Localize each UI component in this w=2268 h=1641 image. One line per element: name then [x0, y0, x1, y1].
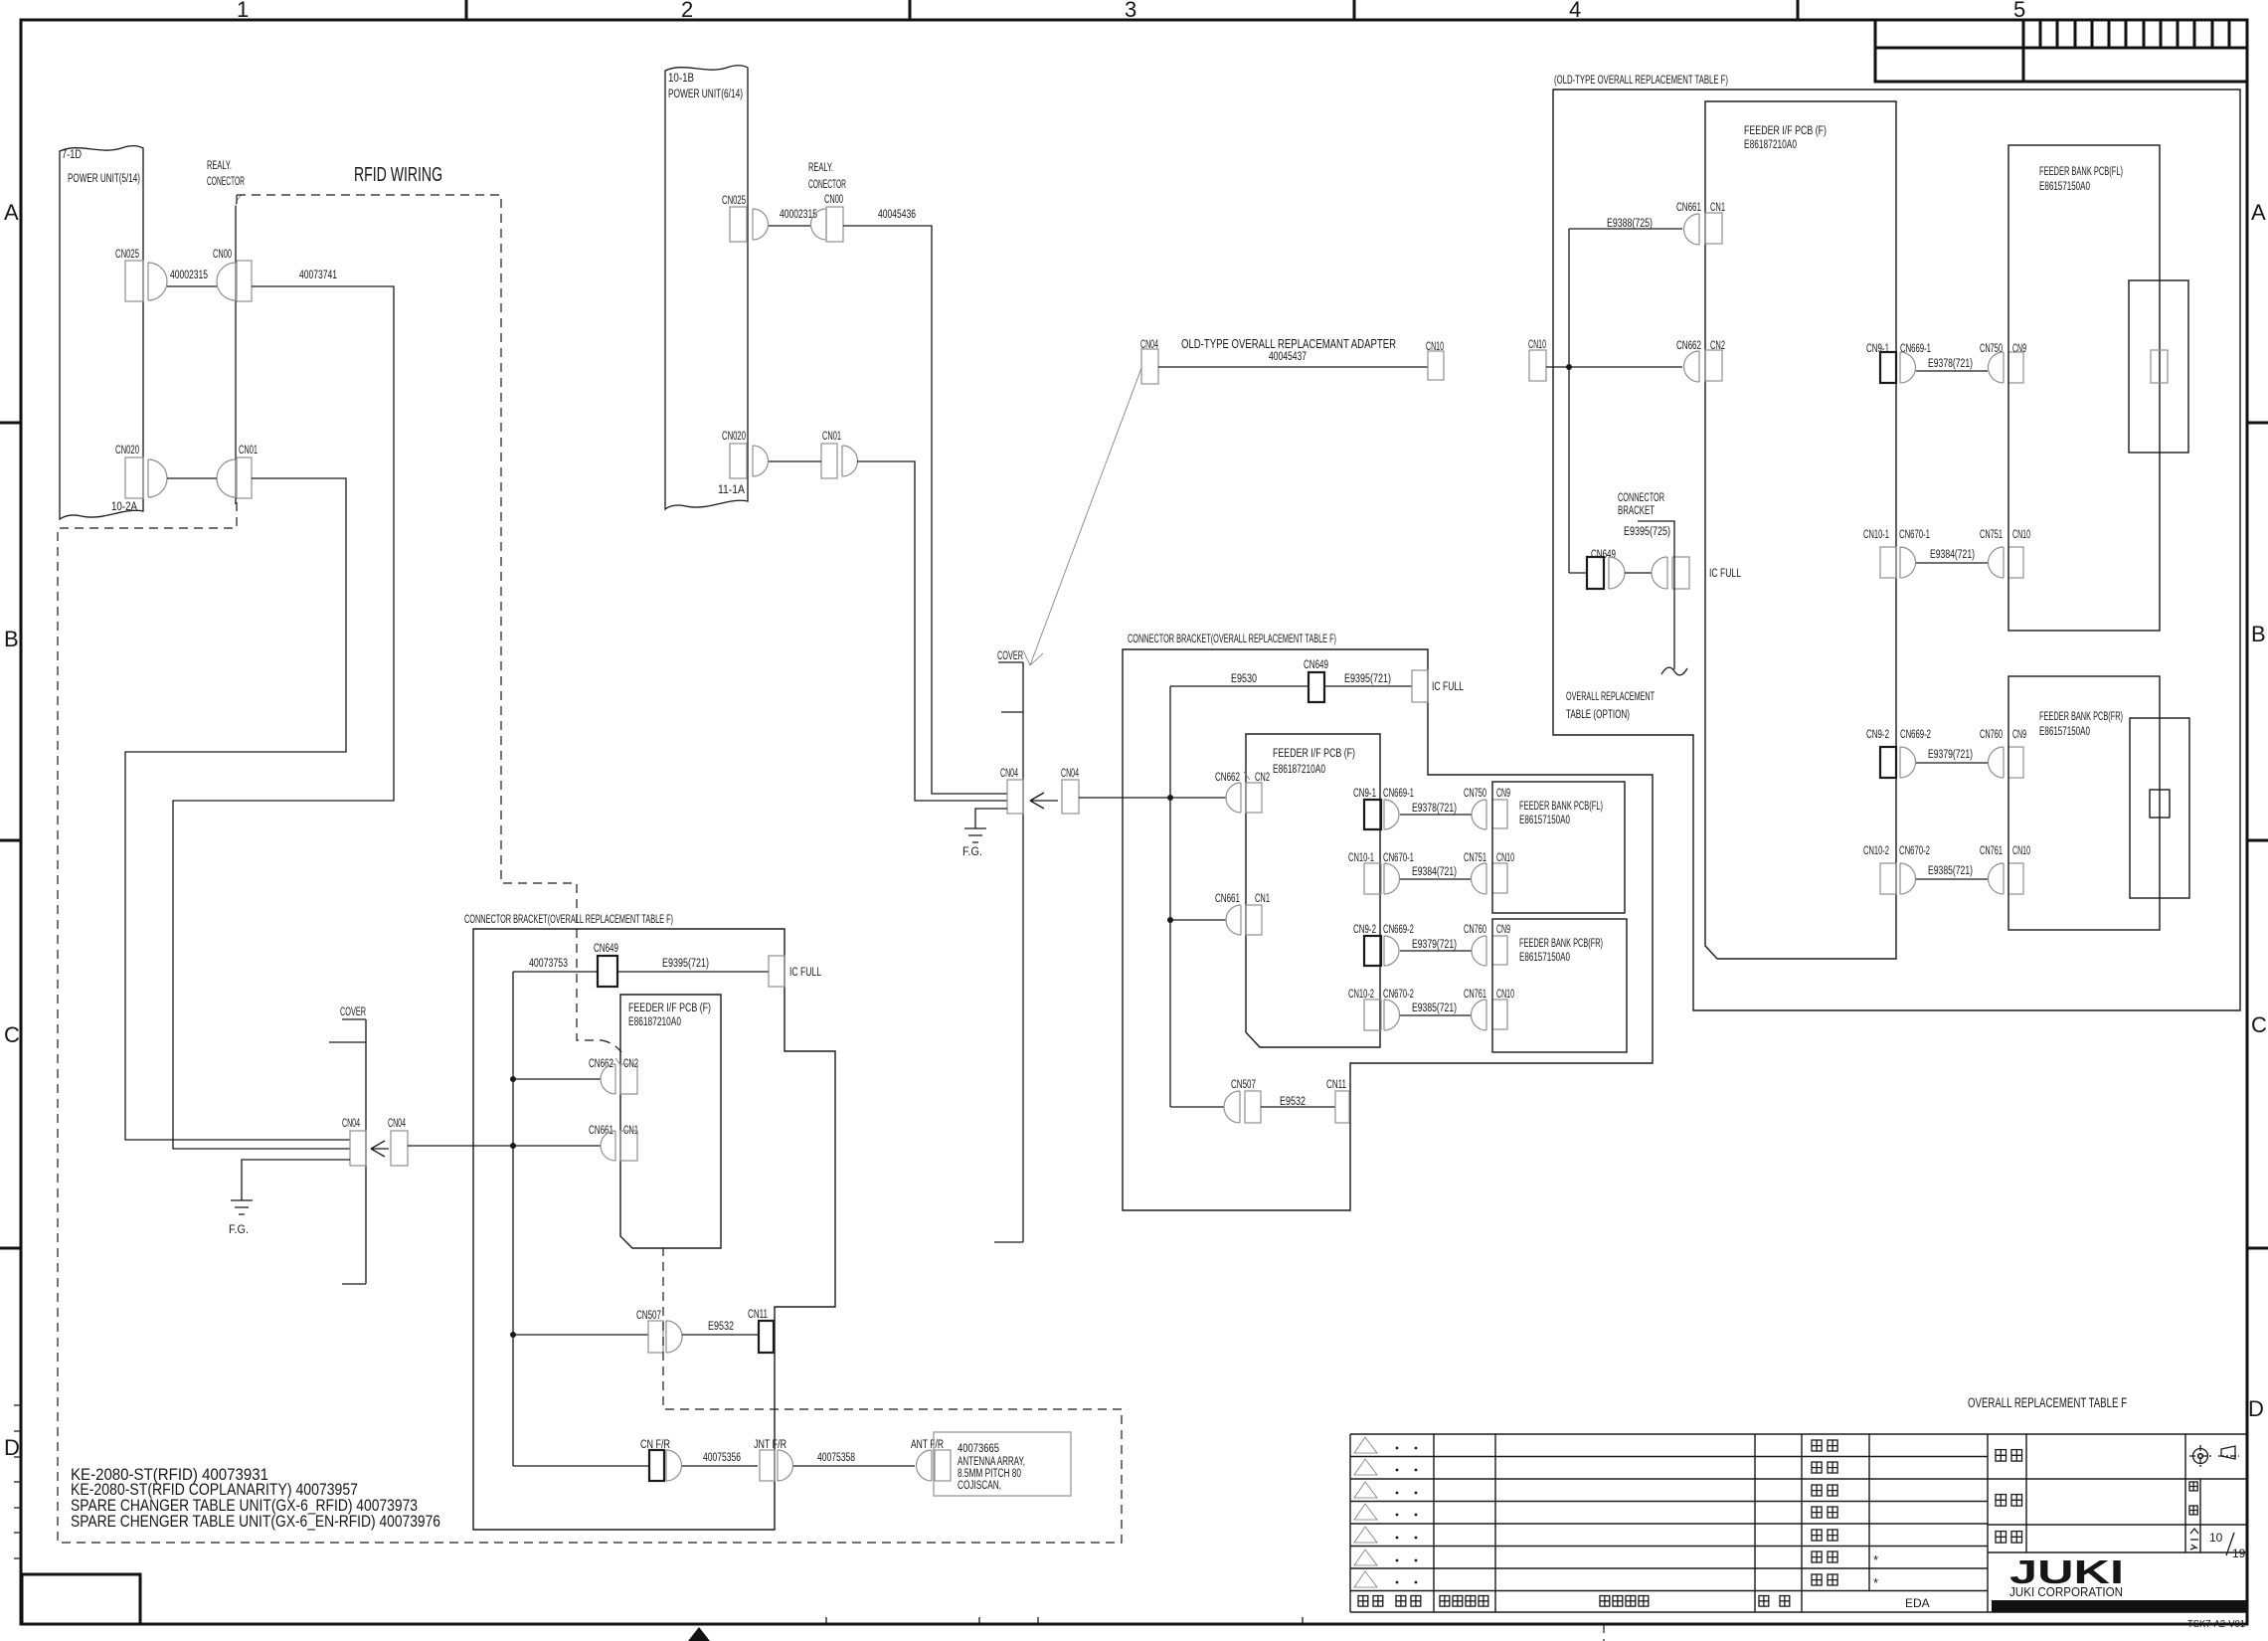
svg-text:CN669-2: CN669-2	[1900, 729, 1931, 741]
svg-text:CN04: CN04	[1061, 768, 1079, 780]
wire adapter 40045437	[1158, 366, 1428, 368]
svg-text:4: 4	[1569, 0, 1581, 22]
svg-text:CN9-1: CN9-1	[1866, 343, 1889, 355]
svg-text:CN10-2: CN10-2	[1863, 845, 1889, 857]
svg-text:CN04: CN04	[342, 1118, 360, 1130]
ground F.G. (left)	[231, 1200, 253, 1214]
left connector bracket outline	[473, 929, 835, 1530]
dashed RFID wiring boundary	[237, 195, 602, 1040]
wire bus to CN661	[513, 1145, 601, 1147]
svg-text:*: *	[1873, 1575, 1878, 1590]
svg-text:JNT F/R: JNT F/R	[754, 1439, 786, 1451]
svg-text:CN10-1: CN10-1	[1348, 852, 1374, 864]
wire middle CN04 to bracket bus	[1079, 797, 1170, 799]
junction dot CN661 branch	[510, 1143, 516, 1149]
svg-text:OVERALL REPLACEMENT: OVERALL REPLACEMENT	[1566, 691, 1655, 703]
right part lines	[1988, 1434, 2247, 1552]
wire CN020-CN01	[167, 477, 217, 479]
feeder I/F PCB box (middle)	[1246, 734, 1380, 1047]
IC FULL connector (left bracket)	[769, 956, 785, 987]
svg-text:CN649: CN649	[1304, 659, 1328, 671]
svg-text:E9395(721): E9395(721)	[662, 958, 709, 970]
wire bus to middle CN662	[1170, 797, 1226, 799]
junction dot CN507 branch	[510, 1332, 516, 1338]
svg-text:CN661: CN661	[1215, 893, 1240, 905]
svg-text:CN669-2: CN669-2	[1383, 924, 1414, 936]
svg-text:10: 10	[2209, 1531, 2223, 1545]
svg-text:40073665: 40073665	[958, 1443, 999, 1455]
wire left CN04 to bracket bus	[408, 1145, 513, 1147]
relay connector leader	[236, 195, 242, 209]
svg-text:CN04: CN04	[388, 1118, 406, 1130]
svg-text:CN662: CN662	[589, 1058, 613, 1070]
svg-text:EDA: EDA	[1905, 1596, 1930, 1610]
svg-text:CN751: CN751	[1980, 529, 2003, 541]
revision header labels	[1358, 1596, 1368, 1607]
svg-text:A: A	[2251, 200, 2266, 225]
svg-text:E9384(721): E9384(721)	[1412, 866, 1457, 878]
svg-text:POWER UNIT(6/14): POWER UNIT(6/14)	[668, 89, 743, 100]
svg-text:RFID WIRING: RFID WIRING	[354, 164, 442, 186]
svg-text:TSK7-A2-V01: TSK7-A2-V01	[2187, 1619, 2245, 1630]
feeder bank PCB FL box (right)	[2008, 145, 2160, 631]
svg-text:CN2: CN2	[1255, 772, 1270, 784]
svg-text:CONNECTOR: CONNECTOR	[1618, 492, 1664, 504]
junction dot middle CN662	[1167, 795, 1173, 801]
svg-text:CN04: CN04	[1000, 768, 1018, 780]
svg-text:CN507: CN507	[636, 1310, 661, 1322]
svg-text:CONNECTOR BRACKET(OVERALL REPL: CONNECTOR BRACKET(OVERALL REPLACEMENT TA…	[1128, 632, 1336, 645]
svg-text:E86157150A0: E86157150A0	[2039, 181, 2090, 193]
left border row ticks	[0, 423, 21, 1248]
svg-text:E9388(725): E9388(725)	[1607, 218, 1653, 230]
svg-text:40073741: 40073741	[299, 270, 337, 281]
FL edge connector rect	[2129, 280, 2188, 453]
feeder I/F PCB box (right)	[1705, 101, 1896, 959]
svg-text:FEEDER I/F PCB (F): FEEDER I/F PCB (F)	[1744, 125, 1827, 137]
wire bus to CN F/R	[513, 1465, 649, 1467]
power unit 10-1B box	[665, 66, 748, 509]
svg-text:C: C	[2251, 1012, 2267, 1037]
svg-text:IC FULL: IC FULL	[1432, 681, 1464, 693]
svg-text:E9385(721): E9385(721)	[1412, 1003, 1457, 1014]
svg-text:CN11: CN11	[748, 1309, 768, 1321]
svg-text:CN750: CN750	[1464, 788, 1486, 800]
svg-text:CONECTOR: CONECTOR	[808, 179, 846, 191]
arrow into middle CN04	[1030, 793, 1058, 809]
svg-text:E9530: E9530	[1231, 673, 1257, 685]
antenna array label box	[934, 1432, 1071, 1496]
svg-text:D: D	[4, 1435, 20, 1460]
svg-text:10-1B: 10-1B	[668, 73, 694, 85]
svg-text:CN760: CN760	[1980, 729, 2003, 741]
svg-text:CN020: CN020	[115, 445, 139, 456]
svg-text:CN11: CN11	[1326, 1079, 1346, 1091]
svg-text:E9532: E9532	[708, 1321, 734, 1333]
svg-text:E9379(721): E9379(721)	[1928, 749, 1973, 761]
svg-text:B: B	[2251, 622, 2266, 646]
feeder bank PCB FR box (middle)	[1492, 919, 1627, 1052]
svg-text:F.G.: F.G.	[229, 1224, 249, 1236]
svg-text:CN020: CN020	[722, 431, 746, 443]
svg-text:19: 19	[2232, 1547, 2246, 1560]
svg-text:8.5MM PITCH 80: 8.5MM PITCH 80	[958, 1468, 1021, 1480]
svg-text:CN507: CN507	[1231, 1079, 1256, 1091]
ground F.G. (middle)	[964, 828, 986, 842]
svg-text:E9395(725): E9395(725)	[1624, 526, 1670, 538]
svg-text:E9378(721): E9378(721)	[1928, 358, 1973, 370]
title block outer	[1350, 1434, 2247, 1612]
wire CN01 to middle cover CN04	[857, 461, 1007, 801]
wire F.G. (left)	[242, 1160, 350, 1200]
svg-text:CN751: CN751	[1464, 852, 1486, 864]
svg-text:ANTENNA ARRAY,: ANTENNA ARRAY,	[958, 1456, 1025, 1468]
feeder bank PCB FL box (middle)	[1492, 782, 1625, 913]
svg-text:CN9-2: CN9-2	[1353, 924, 1376, 936]
svg-text:CN9: CN9	[2012, 729, 2026, 741]
svg-text:B: B	[4, 627, 19, 651]
svg-text:CN1: CN1	[1710, 202, 1725, 214]
svg-text:40075356: 40075356	[703, 1452, 741, 1464]
svg-text:CN025: CN025	[115, 249, 139, 261]
bottom border ticks	[826, 1617, 1303, 1624]
svg-text:OVERALL REPLACEMENT TABLE F: OVERALL REPLACEMENT TABLE F	[1968, 1395, 2127, 1410]
wire CN020-CN01 (10-1B)	[769, 460, 821, 462]
svg-text:POWER UNIT(5/14): POWER UNIT(5/14)	[68, 173, 140, 185]
svg-text:FEEDER BANK PCB(FL): FEEDER BANK PCB(FL)	[2039, 166, 2123, 178]
svg-text:CN9: CN9	[1496, 788, 1510, 800]
svg-text:OLD-TYPE OVERALL REPLACEMANT A: OLD-TYPE OVERALL REPLACEMANT ADAPTER	[1181, 337, 1396, 351]
svg-text:3: 3	[1125, 0, 1136, 22]
svg-text:E9378(721): E9378(721)	[1412, 803, 1457, 815]
bottom center mark triangle	[688, 1627, 710, 1641]
svg-text:CN670-1: CN670-1	[1383, 852, 1414, 864]
svg-text:10-2A: 10-2A	[111, 501, 137, 513]
svg-text:COVER: COVER	[340, 1006, 366, 1018]
junction dot right CN662	[1566, 364, 1572, 370]
svg-text:CN9: CN9	[2012, 343, 2026, 355]
svg-text:COVER: COVER	[997, 650, 1023, 662]
junction dot middle CN661	[1167, 917, 1173, 923]
svg-text:FEEDER I/F PCB (F): FEEDER I/F PCB (F)	[1273, 748, 1355, 760]
svg-text:*: *	[1873, 1552, 1878, 1567]
svg-text:CN1: CN1	[1255, 893, 1270, 905]
svg-text:E9532: E9532	[1280, 1096, 1306, 1108]
svg-text:CN10-2: CN10-2	[1348, 989, 1374, 1001]
svg-text:E9379(721): E9379(721)	[1412, 939, 1457, 951]
svg-text:CONECTOR: CONECTOR	[207, 176, 245, 188]
revision date dots	[1396, 1447, 1418, 1584]
svg-text:40045437: 40045437	[1269, 351, 1307, 363]
revision triangles	[1354, 1437, 1377, 1587]
svg-text:E86157150A0: E86157150A0	[2039, 726, 2090, 738]
svg-text:ANT F/R: ANT F/R	[911, 1439, 944, 1451]
svg-text:F.G.: F.G.	[962, 846, 982, 858]
wire bus to middle CN661	[1170, 919, 1226, 921]
wire bus to CN649 (right)	[1569, 572, 1587, 574]
dashed mark below title block	[1603, 1624, 1605, 1641]
wire CN01 to left cover CN04	[125, 478, 350, 1140]
right border row ticks	[2247, 423, 2268, 1248]
svg-text:CN670-2: CN670-2	[1899, 845, 1930, 857]
part labels	[1996, 1450, 2006, 1462]
svg-text:CN670-2: CN670-2	[1383, 989, 1414, 1001]
svg-text:CN661: CN661	[589, 1125, 613, 1137]
svg-text:CN760: CN760	[1464, 924, 1486, 936]
connector CN649 mate (right)	[1652, 557, 1667, 589]
relay connector bus line	[235, 206, 237, 504]
svg-text:FEEDER BANK PCB(FR): FEEDER BANK PCB(FR)	[1519, 938, 1603, 950]
projection symbol	[2189, 1445, 2239, 1467]
svg-text:40075358: 40075358	[817, 1452, 855, 1464]
svg-text:CONNECTOR BRACKET(OVERALL REPL: CONNECTOR BRACKET(OVERALL REPLACEMENT TA…	[464, 912, 673, 926]
svg-text:C: C	[4, 1022, 20, 1047]
left bracket bus wire	[512, 972, 514, 1466]
svg-text:CN00: CN00	[824, 194, 843, 206]
header grid box top right	[1875, 20, 2247, 82]
svg-text:E86187210A0: E86187210A0	[1744, 139, 1797, 151]
arrow into left CN04	[371, 1141, 389, 1157]
svg-text:CN10-1: CN10-1	[1863, 529, 1889, 541]
svg-text:REALY.: REALY.	[808, 162, 833, 174]
FR edge connector rect	[2130, 718, 2189, 898]
wire F.G. (middle)	[975, 809, 1007, 828]
svg-text:CN669-1: CN669-1	[1383, 788, 1414, 800]
svg-text:CN9-1: CN9-1	[1353, 788, 1376, 800]
svg-text:IC FULL: IC FULL	[789, 967, 821, 979]
middle bracket bus wire	[1169, 686, 1171, 1107]
JUKI black bar	[1992, 1600, 2247, 1612]
svg-text:CN10: CN10	[1528, 339, 1546, 351]
svg-text:COJISCAN,: COJISCAN,	[958, 1480, 1001, 1492]
svg-text:CN10: CN10	[2012, 529, 2030, 541]
power unit 7-1D box	[60, 146, 143, 519]
svg-text:2: 2	[681, 0, 693, 22]
svg-text:CN670-1: CN670-1	[1899, 529, 1930, 541]
svg-text:CN00: CN00	[213, 249, 232, 261]
svg-text:40002315: 40002315	[170, 270, 208, 281]
svg-text:BRACKET: BRACKET	[1618, 505, 1655, 517]
svg-text:CN761: CN761	[1980, 845, 2003, 857]
svg-text:40045436: 40045436	[878, 209, 916, 221]
scale label 尺度	[2189, 1482, 2197, 1491]
svg-text:JUKI CORPORATION: JUKI CORPORATION	[2009, 1584, 2123, 1599]
svg-text:40073753: 40073753	[529, 958, 568, 970]
svg-text:SPARE CHENGER TABLE UNIT(GX-6_: SPARE CHENGER TABLE UNIT(GX-6_EN-RFID) 4…	[71, 1512, 440, 1531]
svg-text:CN10: CN10	[2012, 845, 2030, 857]
svg-text:REALY.: REALY.	[207, 160, 232, 172]
middle connector bracket outline	[1123, 649, 1653, 1210]
wire bus to CN507	[513, 1334, 648, 1336]
svg-text:CN661: CN661	[1676, 202, 1701, 214]
svg-text:CN9: CN9	[1496, 924, 1510, 936]
svg-text:CN9-2: CN9-2	[1866, 729, 1889, 741]
wire CN649 pair (right)	[1625, 572, 1652, 574]
svg-text:CN025: CN025	[722, 195, 746, 207]
junction dot CN662 branch	[510, 1076, 516, 1082]
svg-text:CN761: CN761	[1464, 989, 1486, 1001]
svg-text:A: A	[4, 200, 19, 225]
wire bus to CN662	[513, 1078, 601, 1080]
svg-text:CN01: CN01	[822, 431, 841, 443]
svg-text:E9385(721): E9385(721)	[1928, 865, 1973, 877]
pointer line from CN04 to cover	[1030, 368, 1141, 665]
feeder bank PCB FR box (right)	[2008, 676, 2160, 930]
svg-text:FEEDER BANK PCB(FL): FEEDER BANK PCB(FL)	[1519, 801, 1603, 813]
svg-text:7-1D: 7-1D	[62, 149, 82, 161]
svg-text:TABLE (OPTION): TABLE (OPTION)	[1566, 709, 1630, 721]
connector CN00 (10-1B relay)	[810, 209, 826, 240]
IC FULL connector (middle)	[1412, 670, 1428, 702]
svg-text:E86187210A0: E86187210A0	[1273, 764, 1325, 776]
svg-text:IC FULL: IC FULL	[1709, 568, 1741, 580]
svg-text:D: D	[2248, 1396, 2264, 1421]
right bus wire	[1568, 229, 1570, 573]
svg-text:(OLD-TYPE OVERALL REPLACEMENT: (OLD-TYPE OVERALL REPLACEMENT TABLE F)	[1554, 73, 1728, 87]
svg-text:FEEDER BANK PCB(FR): FEEDER BANK PCB(FR)	[2039, 711, 2123, 723]
old-type table outline	[1553, 90, 2240, 1010]
svg-text:CN662: CN662	[1676, 340, 1701, 352]
wire bus to middle CN507	[1170, 1106, 1224, 1108]
svg-text:11-1A: 11-1A	[718, 484, 745, 496]
svg-text:CN649: CN649	[594, 943, 618, 955]
left border ruler ticks	[14, 1405, 22, 1558]
squiggle continuation mark	[1661, 667, 1687, 675]
revision table row lines	[1350, 1434, 1988, 1591]
svg-text:E86157150A0: E86157150A0	[1519, 952, 1570, 964]
stamp box bottom left	[22, 1574, 140, 1624]
svg-text:E9395(721): E9395(721)	[1344, 673, 1391, 685]
page label ページ	[2190, 1529, 2198, 1534]
svg-text:CN662: CN662	[1215, 772, 1240, 784]
svg-text:1: 1	[237, 0, 249, 22]
svg-text:CN10: CN10	[1496, 852, 1514, 864]
svg-text:CN10: CN10	[1496, 989, 1514, 1001]
svg-text:FEEDER I/F PCB (F): FEEDER I/F PCB (F)	[628, 1003, 711, 1014]
svg-text:E86157150A0: E86157150A0	[1519, 815, 1570, 826]
svg-text:CN01: CN01	[239, 445, 258, 456]
svg-text:E9384(721): E9384(721)	[1930, 549, 1975, 561]
approval labels	[1812, 1440, 1822, 1451]
svg-text:E86187210A0: E86187210A0	[628, 1016, 681, 1028]
wire CN10 to CN662	[1546, 366, 1682, 368]
feeder I/F PCB box (left)	[620, 995, 721, 1248]
top border column ticks	[466, 0, 1798, 20]
